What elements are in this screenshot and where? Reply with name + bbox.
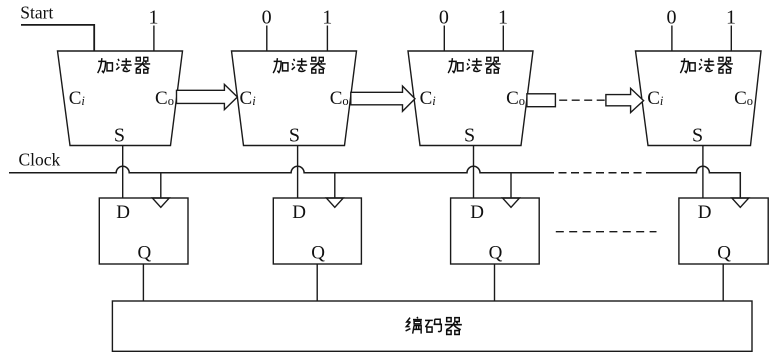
svg-text:D: D [698,202,712,223]
encoder box [112,301,752,351]
wire input 0 adder U4 [671,26,673,52]
svg-text:S: S [464,125,475,147]
svg-text:S: S [114,125,125,147]
svg-text:1: 1 [322,7,332,29]
flip-flop FF3 [451,198,540,264]
clock line with hops [9,166,546,172]
wire S of U2 to D of FF2 [297,146,299,199]
flip-flop FF2 [273,198,361,264]
wire clock branch FF2 [334,173,336,198]
svg-text:Clock: Clock [19,150,61,170]
wire Q1 to encoder [142,264,144,301]
wire clock branch FF1 [160,173,162,198]
block arrow U2.Co to U3.Ci [351,86,415,111]
label 加法器 U1 [98,57,151,73]
svg-text:0: 0 [667,7,677,29]
wire input 1 adder U2 [326,26,328,52]
dashed line between FF3 and FF4 [556,231,657,233]
dashed wire U3.Co to U4.Ci [559,99,605,101]
svg-text:D: D [116,202,130,223]
svg-text:1: 1 [149,7,159,29]
wire input 1 adder U4 [730,26,732,52]
adder U1 trapezoid [58,51,183,146]
wire Q3 to encoder [494,264,496,301]
block arrow head into U4.Ci [606,88,644,112]
adder U3 trapezoid [408,51,533,146]
wire input 0 adder U3 [443,26,445,52]
block arrow U1.Co to U2.Ci [177,84,238,109]
flip-flop FF4 [679,198,768,264]
wire S of U1 to D of FF1 [122,146,124,199]
svg-text:D: D [470,202,484,223]
svg-text:1: 1 [498,7,508,29]
wire Q2 to encoder [316,264,318,301]
flip-flop FF1 [99,198,188,264]
wire S of U3 to D of FF3 [473,146,475,199]
wire Q4 to encoder [722,264,724,301]
wire clock branch FF3 [510,173,512,198]
wire input 0 adder U2 [266,26,268,52]
svg-text:Start: Start [20,2,53,22]
label 加法器 U3 [448,57,501,73]
svg-text:1: 1 [726,7,736,29]
clock line right segment with hop, to FF4 clock input [652,166,741,198]
clock triangle FF1 [152,198,169,207]
adder U4 trapezoid [636,51,762,146]
label 加法器 U4 [680,57,733,73]
clock triangle FF3 [503,198,520,207]
svg-text:D: D [292,202,306,223]
svg-text:Q: Q [489,243,503,264]
wire input 1 adder U1 [153,26,155,52]
svg-text:Q: Q [311,243,325,264]
wire S of U4 to D of FF4 [702,146,704,199]
stub rectangle U3.Co [527,94,556,107]
label 加法器 U2 [273,57,326,73]
svg-text:Q: Q [138,243,152,264]
adder U2 trapezoid [232,51,357,146]
wire Start input [21,25,94,51]
svg-text:S: S [692,125,703,147]
wire input 1 adder U3 [502,26,504,52]
svg-text:S: S [289,125,300,147]
clock triangle FF4 [732,198,749,207]
clock line dashed segment [546,172,652,174]
svg-text:Q: Q [717,243,731,264]
clock triangle FF2 [326,198,343,207]
label 编码器 encoder [406,317,462,335]
svg-text:0: 0 [262,7,272,29]
svg-text:0: 0 [439,7,449,29]
